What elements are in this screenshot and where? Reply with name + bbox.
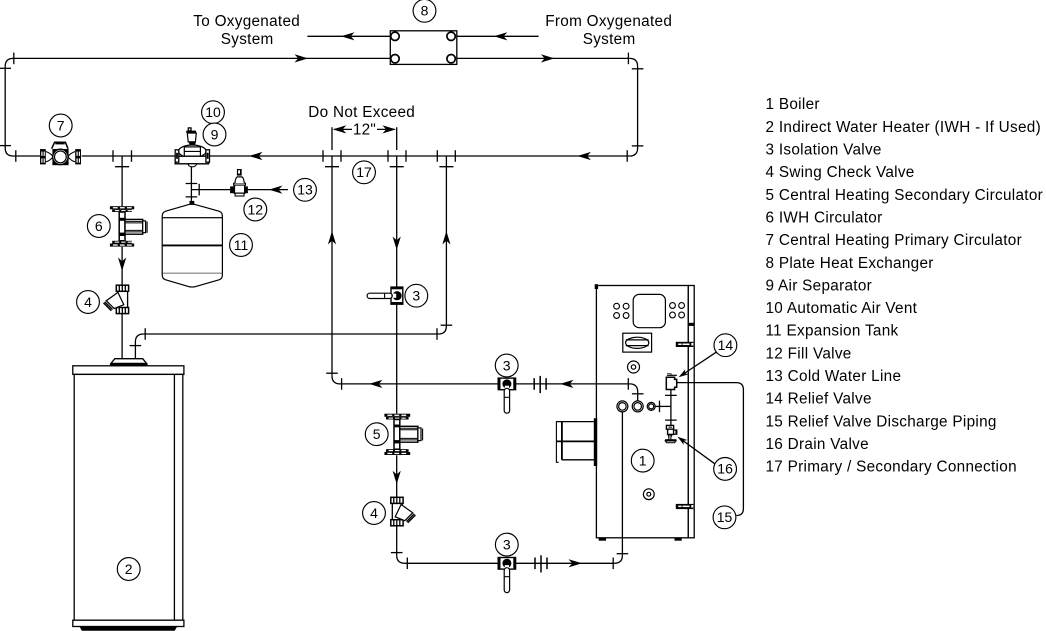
wire: air separator drop pipe x=191.4 <box>190 164 192 201</box>
label circle 7 <box>49 114 72 137</box>
wire: pipe to oxygenated system (top left, y=36) <box>307 35 390 37</box>
fitting tick before boiler return elbow <box>627 378 629 390</box>
boiler door slot <box>623 333 652 352</box>
boiler 1 cabinet <box>595 284 695 541</box>
fitting tick on tank branch riser <box>130 345 142 347</box>
wire: cold water / fill line y=189.6 left segment <box>191 189 230 191</box>
wire: IWH return line y=334 <box>143 333 438 335</box>
svg-text:12 Fill Valve: 12 Fill Valve <box>766 345 852 362</box>
elbow boiler supply line up into boiler <box>614 555 622 563</box>
svg-text:17 Primary / Secondary Connect: 17 Primary / Secondary Connection <box>766 459 1017 476</box>
fitting tick on boiler return line after elbow <box>341 378 343 390</box>
wire: fill line valve to cold water inlet <box>248 189 288 191</box>
svg-text:3: 3 <box>412 288 420 304</box>
label circle 10 <box>202 101 225 124</box>
wire: IWH branch circulator 6 to check valve <box>121 247 123 285</box>
label circle 3 supply line <box>495 533 518 556</box>
fitting tick on right riser below elbow <box>632 68 644 70</box>
svg-text:10: 10 <box>205 104 221 120</box>
fitting tick on boiler supply riser <box>617 553 629 555</box>
wire: riser A x=332 header to bottom elbow <box>331 156 333 376</box>
svg-text:1 Boiler: 1 Boiler <box>766 96 820 113</box>
label circle 6 <box>87 215 110 238</box>
flow arrow left on to-oxygenated pipe <box>341 32 355 40</box>
circulator pump 5 <box>384 414 422 455</box>
svg-text:16: 16 <box>717 461 733 477</box>
heat exchanger port circles <box>391 32 399 40</box>
leader line to relief valve from label 14 <box>681 352 716 375</box>
svg-text:9 Air Separator: 9 Air Separator <box>766 277 873 294</box>
fitting ticks on separator drop pipe <box>186 184 198 197</box>
fitting tick on left riser below elbow <box>0 67 11 69</box>
fitting tick on horizontal at left elbow <box>13 53 15 65</box>
svg-text:12": 12" <box>353 122 376 139</box>
label circle 1 <box>631 449 654 472</box>
svg-text:15 Relief Valve Discharge Pipi: 15 Relief Valve Discharge Piping <box>766 413 997 430</box>
flow arrow right on boiler supply line <box>569 559 583 567</box>
label circle 17 <box>353 161 376 184</box>
svg-text:6: 6 <box>95 218 103 234</box>
elbow boiler return line down to boiler port <box>630 384 638 392</box>
elbow at top of right riser <box>630 58 638 66</box>
elbow riser B to boiler supply line <box>397 555 405 563</box>
svg-text:4: 4 <box>84 294 92 310</box>
flow arrow down on riser B top <box>393 237 401 251</box>
svg-text:3: 3 <box>503 357 511 373</box>
wire: relief valve stem down to drain valve <box>670 390 672 426</box>
air separator 9 <box>175 145 209 167</box>
label circle 13 <box>294 178 317 201</box>
fitting tick on riser C above elbow <box>441 324 453 326</box>
boiler control display <box>633 294 665 327</box>
svg-text:11 Expansion Tank: 11 Expansion Tank <box>766 323 899 340</box>
wire: heat exchanger lower-left pipe (y=58) <box>13 57 390 59</box>
flow arrow right on HX lower-left pipe <box>295 54 309 62</box>
svg-text:System: System <box>583 31 636 48</box>
fitting tick before riser C elbow <box>436 328 438 340</box>
expansion tank 11 <box>162 201 222 287</box>
flow arrow left on boiler return near boiler <box>560 380 574 388</box>
svg-text:17: 17 <box>356 164 372 180</box>
dimension line right with arrow <box>377 128 395 130</box>
wire: boiler return line valve to boiler <box>516 383 630 385</box>
elbow at bottom of right riser <box>630 148 638 156</box>
wire: main header left segment to circulator 7 <box>13 155 40 157</box>
label circle 2 <box>117 558 140 581</box>
svg-text:5: 5 <box>373 426 381 442</box>
svg-text:5 Central Heating Secondary Ci: 5 Central Heating Secondary Circulator <box>766 187 1044 204</box>
svg-text:10 Automatic Air Vent: 10 Automatic Air Vent <box>766 300 918 317</box>
wire: riser C x=446.4 <box>445 156 447 326</box>
fitting tick before boiler return elbow (overlay) <box>627 378 629 390</box>
flow arrow left on boiler return line <box>369 380 383 388</box>
wire: HX lower-right pipe to right riser (y=58) <box>457 57 630 59</box>
flow arrow left toward heat exchanger <box>494 32 508 40</box>
label circle 16 <box>714 458 737 481</box>
label circle 14 <box>714 334 737 357</box>
leader line to drain valve from label 16 <box>680 439 715 464</box>
svg-text:13: 13 <box>297 182 313 198</box>
svg-text:4: 4 <box>370 505 378 521</box>
label circle 12 <box>244 198 267 221</box>
flow arrow up on riser C <box>442 231 450 245</box>
boiler buttons left <box>614 303 629 318</box>
svg-text:13 Cold Water Line: 13 Cold Water Line <box>766 368 902 385</box>
boiler buttons right <box>670 303 685 318</box>
wire: stub into boiler return port <box>637 392 639 401</box>
boiler sight glass lower <box>643 489 654 500</box>
fitting tick on left riser above bottom elbow <box>0 145 11 147</box>
label circle 8 <box>413 0 436 22</box>
svg-text:1: 1 <box>639 452 647 468</box>
fitting tick below boiler return elbow <box>632 393 644 395</box>
tee fitting tick on fill line <box>198 184 200 196</box>
svg-text:15: 15 <box>717 509 733 525</box>
wire: main header circulator 7 to IWH tee and air separator <box>82 155 176 157</box>
elbow riser A to boiler return line <box>332 376 340 384</box>
relief valve 14 <box>666 373 677 389</box>
elbow tank branch to IWH return line <box>135 334 143 342</box>
svg-text:14: 14 <box>718 337 734 353</box>
label circle 11 <box>230 234 253 257</box>
wire: boiler supply riser inside cabinet <box>621 412 623 538</box>
fitting tick on riser B above bottom elbow <box>391 552 403 554</box>
wire: left riser pipe x=5.2 <box>4 66 6 148</box>
svg-text:11: 11 <box>234 237 249 253</box>
flow arrow down on riser B below circulator 5 <box>393 471 401 485</box>
svg-text:6 IWH Circulator: 6 IWH Circulator <box>766 210 883 227</box>
union fitting on boiler supply line <box>535 555 547 572</box>
drain valve 16 <box>665 425 677 442</box>
label circle 3 return line <box>495 354 518 377</box>
label circle 9 <box>203 123 226 146</box>
fitting tick on boiler supply line after elbow <box>406 558 408 570</box>
label circle 4 upper <box>77 291 100 314</box>
label circle 5 <box>365 423 388 446</box>
svg-text:3 Isolation Valve: 3 Isolation Valve <box>766 142 882 159</box>
svg-text:Do Not Exceed: Do Not Exceed <box>308 104 415 121</box>
fitting tick on IWH return line after elbow <box>144 328 146 340</box>
flow arrow up on riser A <box>328 231 336 245</box>
svg-text:16 Drain Valve: 16 Drain Valve <box>766 436 869 453</box>
wire: main header from air separator to right elbow <box>209 155 630 157</box>
automatic air vent 10 <box>186 128 196 145</box>
flow arrow down to check valve 4 <box>118 258 126 272</box>
label circle 15 <box>713 506 736 529</box>
wire: boiler supply riser x=622.4 up to boiler port <box>621 412 623 555</box>
fill valve 12 <box>230 169 248 196</box>
fitting tick on riser A above elbow <box>326 372 338 374</box>
tee fitting ticks at riser B x=396.7 <box>388 150 406 167</box>
elbow at top of left riser <box>5 58 13 66</box>
IWH tank inlet fitting <box>110 359 148 366</box>
circulator pump 7 <box>40 142 81 165</box>
wire: IWH branch pipe down from header x=122 <box>121 156 123 206</box>
tee fitting ticks at riser A x=332 <box>323 150 341 167</box>
tee fitting ticks at riser C x=446.4 <box>437 150 455 167</box>
label circle 3 riser B <box>405 284 428 307</box>
relief valve discharge piping 15 <box>677 383 744 516</box>
dimension extension lines x=332 and x=396.7 <box>332 127 397 150</box>
svg-text:To Oxygenated: To Oxygenated <box>193 13 300 30</box>
ball valve 3 on boiler supply line <box>498 558 515 593</box>
svg-text:9: 9 <box>211 126 219 142</box>
plate heat exchanger 8 body <box>390 31 457 65</box>
ball valve 3 on boiler return line <box>498 378 515 413</box>
svg-text:7 Central Heating Primary Circ: 7 Central Heating Primary Circulator <box>766 232 1022 249</box>
svg-text:12: 12 <box>248 201 264 217</box>
union fitting on boiler return line <box>534 376 546 393</box>
boiler burner box <box>556 418 597 466</box>
tee fitting ticks at IWH branch x=122 <box>113 150 132 167</box>
flow arrow right on HX lower-right pipe <box>541 54 555 62</box>
svg-text:2 Indirect Water Heater (IWH -: 2 Indirect Water Heater (IWH - If Used) <box>766 119 1042 136</box>
svg-text:From Oxygenated: From Oxygenated <box>545 13 672 30</box>
fitting tick on port 3 link <box>659 401 661 413</box>
fitting tick on header right of bottom elbow <box>15 150 17 162</box>
flow arrow left on header right portion <box>577 152 591 160</box>
elbow IWH return line to riser C <box>438 326 446 334</box>
fitting ticks on relief stem <box>665 395 677 420</box>
wire: boiler return line y=383.9 left segment <box>340 383 498 385</box>
flow arrow left on header near separator <box>249 152 263 160</box>
fitting tick before boiler supply elbow <box>612 558 614 570</box>
wire: boiler return line inside cabinet <box>596 383 629 385</box>
svg-text:2: 2 <box>125 561 133 577</box>
swing check valve 4 lower <box>391 497 416 526</box>
boiler connection ports <box>617 401 655 412</box>
svg-text:8 Plate Heat Exchanger: 8 Plate Heat Exchanger <box>766 255 934 272</box>
fitting tick before top right elbow <box>627 53 629 65</box>
wire: check valve to tank inlet fitting <box>121 314 123 359</box>
elbow boiler return line down to port (overlay) <box>630 384 638 401</box>
svg-text:8: 8 <box>421 3 429 19</box>
svg-text:14 Relief Valve: 14 Relief Valve <box>766 391 872 408</box>
wire: boiler port 3 link to relief stem <box>655 405 671 407</box>
fitting tick below boiler return elbow (overlay) <box>632 393 644 395</box>
wire: right riser pipe x=637.6 <box>637 66 639 148</box>
wire: tank branch riser x=135.4 <box>134 342 136 359</box>
label circle 4 lower <box>363 502 386 525</box>
fitting tick on right riser above bottom elbow <box>632 145 644 147</box>
elbow at bottom of left riser <box>5 148 13 156</box>
svg-text:3: 3 <box>503 536 511 552</box>
svg-text:7: 7 <box>57 117 65 133</box>
indirect water heater tank 2 <box>73 366 184 631</box>
wire: riser B x=396.7 segments <box>396 156 398 555</box>
dimension line left with arrow <box>334 128 352 130</box>
swing check valve 4 upper <box>104 285 129 313</box>
ball valve 3 on riser B <box>367 287 403 304</box>
wire: boiler supply line y=563.3 <box>405 562 615 564</box>
circulator pump 6 <box>110 206 147 246</box>
svg-text:4 Swing Check Valve: 4 Swing Check Valve <box>766 164 915 181</box>
boiler hinge upper <box>676 342 694 347</box>
flow arrow left on cold water line <box>269 186 283 194</box>
fitting tick on header before right elbow <box>626 150 628 162</box>
boiler hinge lower <box>676 504 694 509</box>
wire: pipe from oxygenated system (top right, y=36) <box>457 35 539 37</box>
svg-text:System: System <box>221 31 274 48</box>
boiler sight glass upper <box>628 361 640 373</box>
